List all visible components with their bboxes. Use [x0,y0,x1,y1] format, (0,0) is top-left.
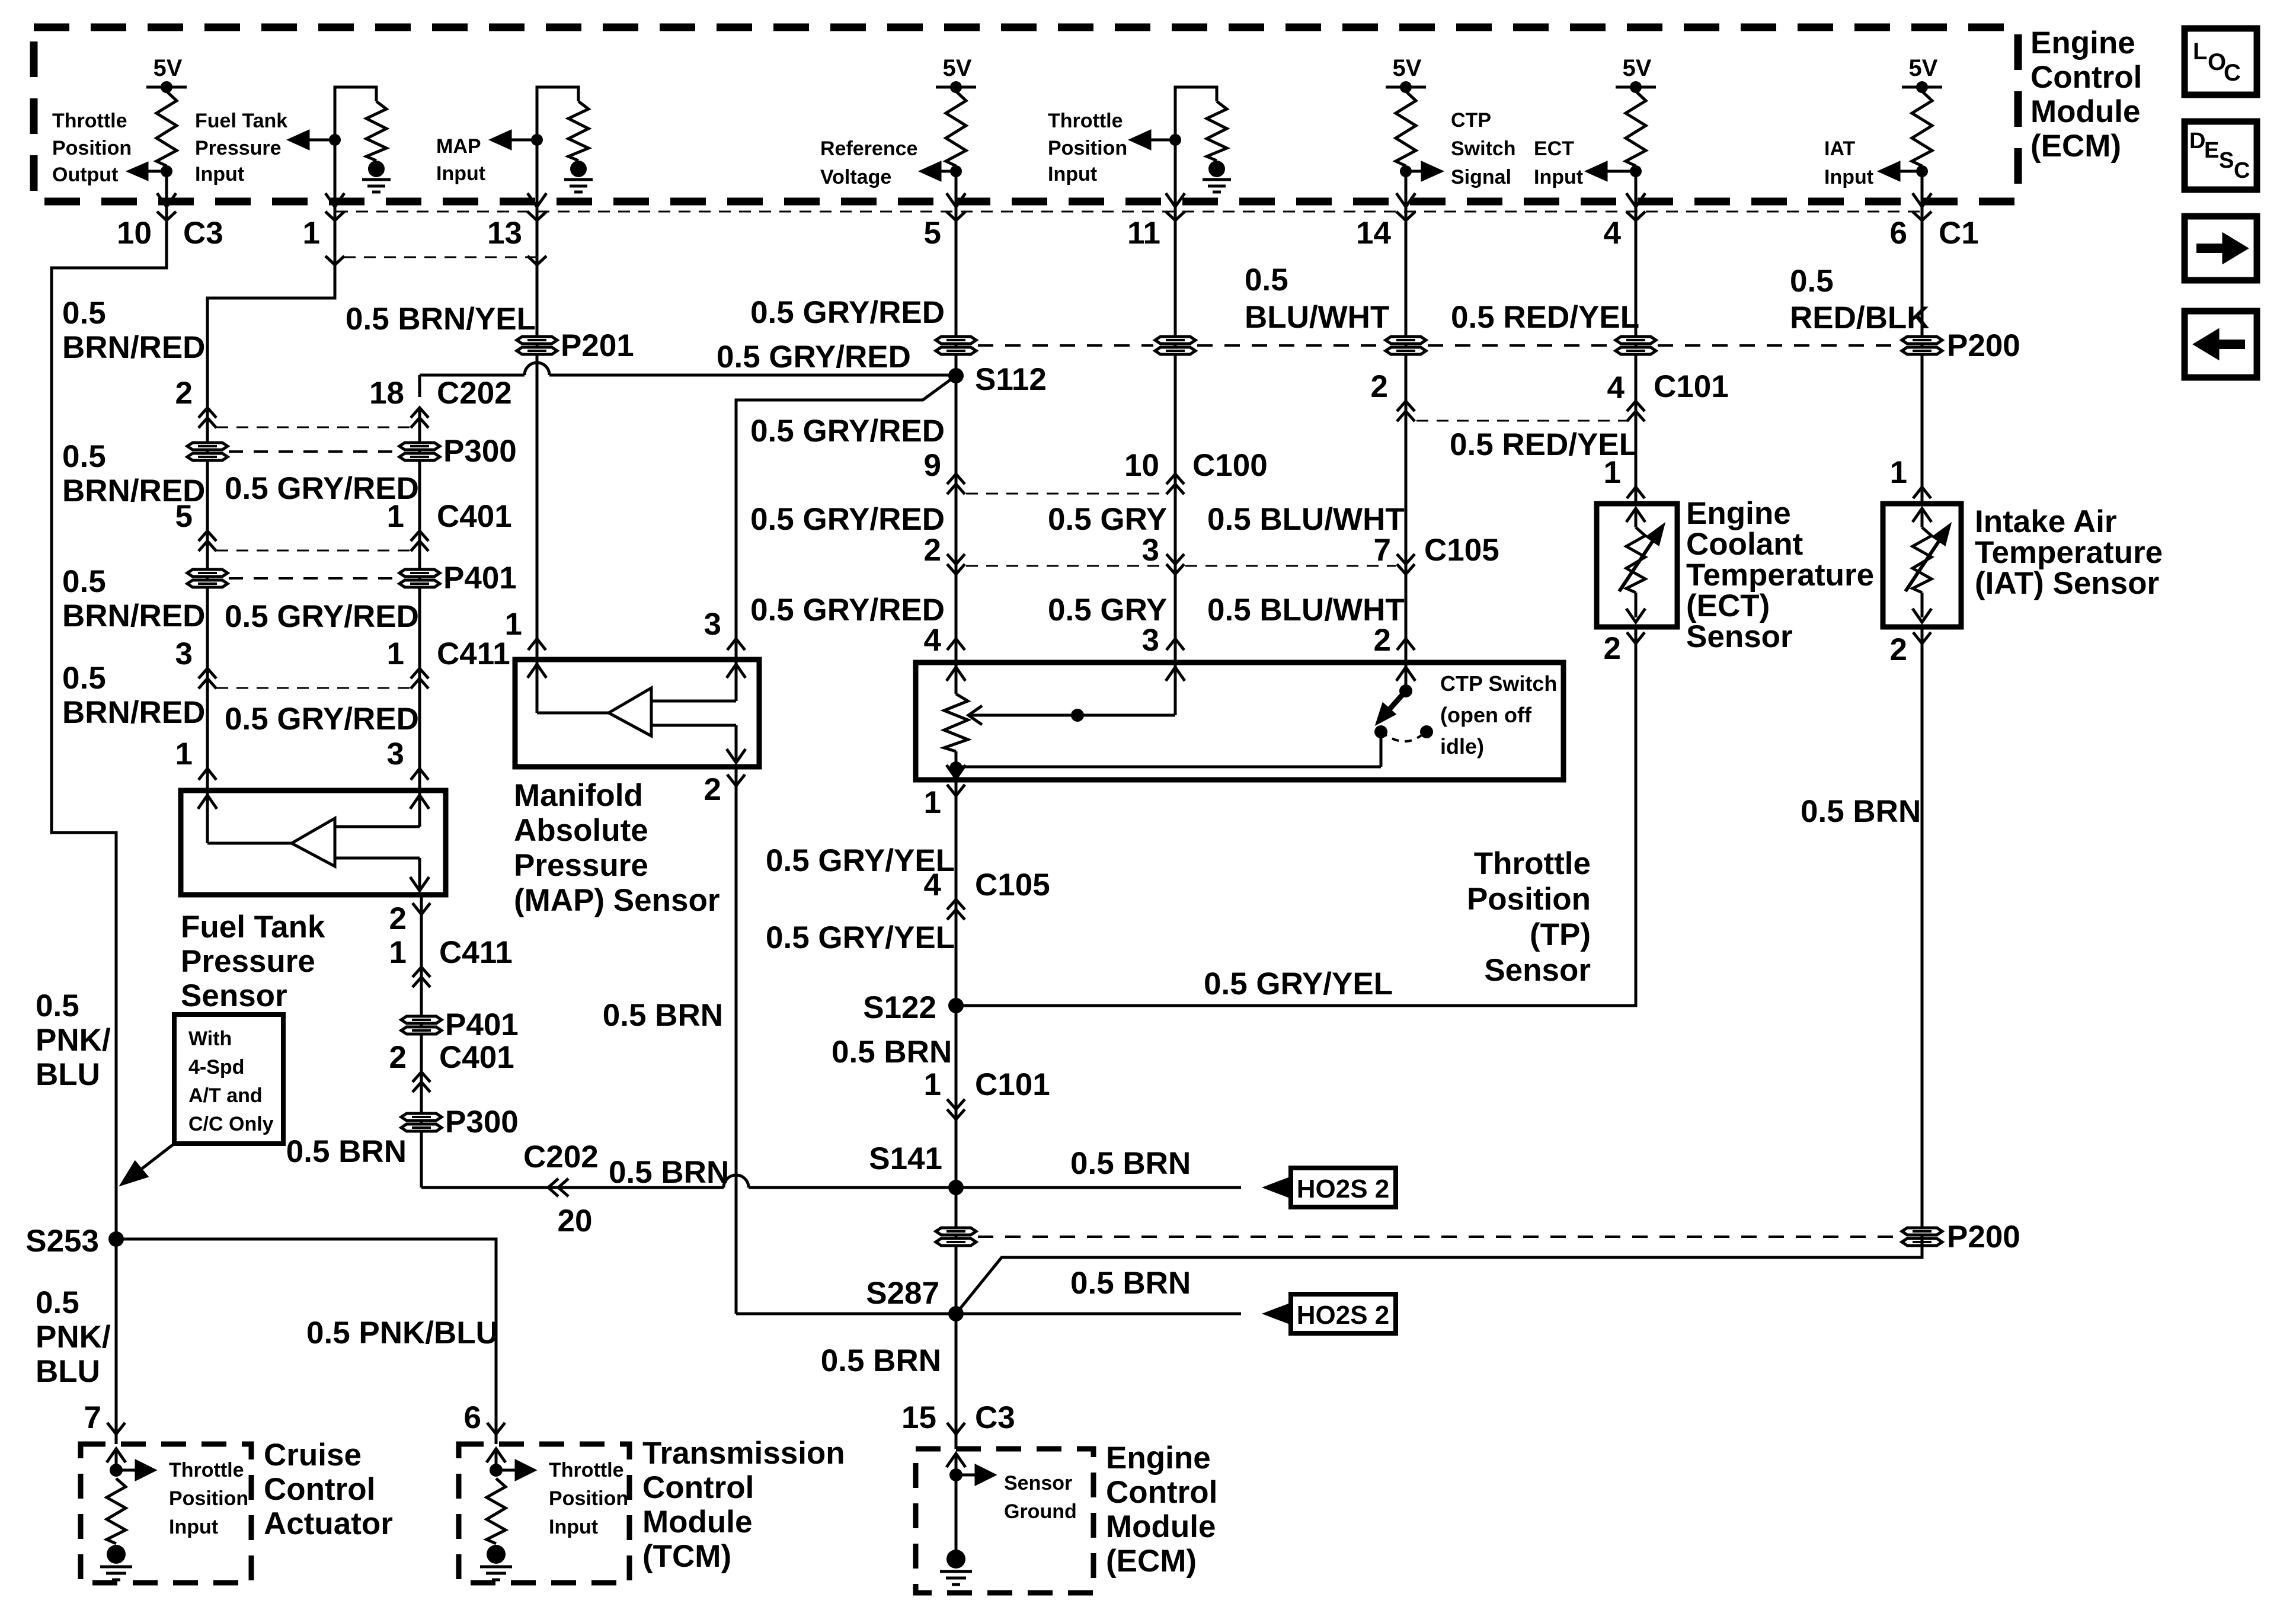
splice S141 [948,1180,964,1195]
wire ECT input to pin 4 [1635,171,1638,206]
ECT sensor pin 2 connector [1627,632,1645,644]
ECM module box (dashed) [34,27,2018,201]
svg-text:2: 2 [175,376,193,411]
svg-text:0.5 GRY/RED: 0.5 GRY/RED [717,340,911,375]
svg-text:C1: C1 [1939,216,1979,251]
svg-text:5: 5 [175,499,193,534]
wire pin5 reference voltage run [955,206,958,662]
svg-text:Engine: Engine [1686,496,1791,531]
svg-text:4: 4 [924,868,942,902]
svg-text:1: 1 [1890,455,1907,490]
svg-text:2: 2 [1374,623,1391,658]
svg-text:11: 11 [1127,216,1160,251]
svg-text:Transmission: Transmission [642,1436,845,1471]
splice S253 [108,1231,124,1247]
svg-text:0.5 BRN: 0.5 BRN [603,998,723,1033]
svg-text:(ECM): (ECM) [1106,1544,1197,1579]
svg-text:C: C [2224,60,2241,86]
resistor R4 (Reference Voltage) [946,91,966,166]
svg-text:Sensor: Sensor [1484,953,1591,988]
svg-text:P300: P300 [443,434,517,469]
wire CTP switch arrow [1406,170,1422,173]
MAP sensor pin 2 connector [727,774,745,786]
svg-text:Pressure: Pressure [195,137,282,159]
svg-text:A/T and: A/T and [188,1084,263,1107]
svg-text:Position: Position [1048,137,1127,159]
node R5 (Throttle Position Input) junction [1169,134,1181,146]
svg-text:Engine: Engine [2030,25,2135,60]
svg-text:Control: Control [1106,1475,1217,1510]
svg-text:0.5 GRY/RED: 0.5 GRY/RED [750,295,945,330]
svg-text:0.5 BLU/WHT: 0.5 BLU/WHT [1207,502,1405,537]
MAP internal wiring [727,664,746,678]
svg-text:10: 10 [117,216,152,251]
svg-text:2: 2 [924,533,941,568]
svg-text:2: 2 [389,901,407,936]
LOC legend box [2185,28,2257,95]
TP sensor potentiometer [946,667,965,681]
wire ECT pin2 to S122 (0.5 GRY/YEL) [956,627,1636,1006]
svg-text:PNK/: PNK/ [36,1320,111,1355]
svg-text:P300: P300 [445,1105,519,1140]
wire P200 to S287 [956,1237,1922,1314]
connector pass-through below S141 [936,1228,976,1246]
Transmission Control Module internals [487,1449,506,1462]
Cruise Control Actuator box (dashed) [81,1444,251,1583]
svg-text:0.5: 0.5 [36,988,79,1023]
svg-text:Position: Position [1467,882,1591,917]
svg-text:4-Spd: 4-Spd [188,1056,244,1078]
Throttle Position Sensor box [916,662,1563,780]
svg-text:(MAP) Sensor: (MAP) Sensor [514,883,720,918]
svg-text:0.5: 0.5 [1245,263,1288,297]
svg-text:Throttle: Throttle [52,110,127,132]
node R4 (Reference Voltage) junction [950,165,962,177]
svg-text:Voltage: Voltage [820,166,891,188]
svg-text:1: 1 [1604,455,1621,490]
left-arrow legend box [2185,311,2257,377]
wire TP input arrow [1150,139,1175,142]
svg-text:1: 1 [389,935,407,970]
TP sensor wiper [968,706,982,725]
svg-text:Input: Input [169,1516,218,1538]
arrow to HO2S 2 (upper) [1266,1178,1291,1197]
svg-text:Temperature: Temperature [1686,558,1874,593]
connector pin 13 [527,212,546,220]
connector pass-through (ECT) [1616,337,1656,354]
splice S112 [948,368,964,383]
svg-text:S122: S122 [863,990,936,1025]
svg-text:3: 3 [175,636,193,671]
wire pin11 TP input run [1174,206,1177,662]
svg-text:S112: S112 [975,362,1047,397]
wire IAT input arrow [1899,170,1922,173]
svg-text:(ECT): (ECT) [1686,588,1770,623]
wire reference voltage to pin 5 [955,171,958,206]
svg-text:Position: Position [549,1487,628,1510]
svg-text:0.5: 0.5 [36,1285,79,1320]
connector P300 row [187,443,228,460]
svg-text:0.5 BRN: 0.5 BRN [1070,1146,1191,1181]
ground Cruise Control Actuator [107,1545,126,1564]
svg-text:C401: C401 [437,499,512,534]
svg-text:C202: C202 [523,1140,599,1174]
wire C202-18 to S112 (0.5 GRY/RED) [418,375,421,397]
wire MAP pin2 down (0.5 BRN) [735,767,738,1314]
svg-text:0.5 GRY/RED: 0.5 GRY/RED [750,502,945,537]
svg-text:0.5 GRY/YEL: 0.5 GRY/YEL [766,920,955,955]
svg-text:Control: Control [264,1472,375,1507]
wire MAP input arrow [510,139,537,142]
svg-text:BLU: BLU [36,1057,100,1092]
wire P300 bottom to S141 (0.5 BRN) [421,1186,544,1189]
svg-text:P201: P201 [561,328,634,363]
resistor R7 (ECT Input) [1626,91,1646,166]
svg-text:Position: Position [52,137,132,159]
HO2S 2 box (upper) [1291,1168,1396,1207]
resistor R8 (IAT Input) [1912,91,1932,166]
svg-text:C3: C3 [183,216,223,251]
wire S287 to HO2S 2 (lower) [956,1313,1241,1315]
svg-text:Throttle: Throttle [1474,846,1591,881]
svg-text:RED/BLK: RED/BLK [1790,300,1930,335]
ground Engine Control Module (bottom) [946,1550,965,1569]
svg-text:D: D [2189,129,2205,153]
svg-text:2: 2 [1371,369,1388,404]
node R8 (IAT Input) junction [1916,165,1928,177]
svg-text:0.5 BRN: 0.5 BRN [609,1155,729,1190]
FTP internal wiring [410,795,429,809]
connector pass-through (CTP) [1386,337,1426,354]
ECT thermistor [1626,508,1645,522]
svg-text:0.5 BRN: 0.5 BRN [821,1343,941,1378]
wire right chain C202-18 down to FTP pin3 [418,408,421,790]
svg-text:C411: C411 [437,636,510,671]
svg-text:10: 10 [1124,448,1159,483]
svg-text:0.5 GRY/RED: 0.5 GRY/RED [225,702,419,737]
svg-text:0.5 RED/YEL: 0.5 RED/YEL [1451,300,1639,335]
wire FTP input to pin 1 [334,140,337,206]
connector pin 1 lower chevron [325,256,344,265]
svg-text:0.5 BRN: 0.5 BRN [1070,1266,1191,1301]
wire pin1 FTP run to left chain [207,206,335,790]
svg-text:C/C Only: C/C Only [188,1113,274,1135]
svg-text:C: C [2234,158,2250,183]
svg-text:5V: 5V [154,55,183,81]
svg-text:3: 3 [387,737,404,772]
svg-text:5: 5 [924,216,941,251]
svg-text:S141: S141 [869,1141,942,1176]
svg-text:C411: C411 [439,935,513,970]
node R1 (Throttle Position Output) junction [161,165,172,177]
resistor R3 (MAP Input) pull-down [568,101,589,161]
svg-text:Pressure: Pressure [181,944,315,979]
right-arrow legend box [2185,216,2257,280]
svg-text:1: 1 [175,737,193,772]
splice S122 [948,998,964,1013]
svg-text:5V: 5V [1909,55,1938,81]
svg-text:C101: C101 [1654,369,1729,404]
svg-text:E: E [2204,138,2219,163]
svg-text:P200: P200 [1947,328,2020,363]
MAP sensor internals [527,664,546,678]
svg-text:18: 18 [369,376,404,411]
svg-text:S253: S253 [25,1224,99,1259]
arrow to HO2S 2 (lower) [1266,1304,1291,1323]
connector P201 [517,337,557,354]
svg-text:Actuator: Actuator [264,1506,393,1541]
svg-text:CTP Switch: CTP Switch [1440,671,1557,696]
CTP switch [1396,667,1415,681]
svg-text:(ECM): (ECM) [2030,129,2121,164]
svg-text:0.5: 0.5 [62,439,106,474]
svg-text:1: 1 [387,636,404,671]
svg-text:4: 4 [1604,216,1622,251]
MAP amplifier triangle [609,688,651,736]
ground Transmission Control Module [487,1545,506,1564]
svg-text:4: 4 [1607,370,1625,405]
TP sensor pin 1 connector [947,785,965,796]
wire S112 to MAP pin 3 [736,376,956,660]
wire hop over MAP column [525,363,549,375]
svg-text:5V: 5V [1393,55,1422,81]
svg-text:1: 1 [303,216,320,251]
svg-text:S: S [2219,148,2234,173]
svg-text:Module: Module [1106,1509,1216,1544]
svg-text:BLU/WHT: BLU/WHT [1245,300,1389,335]
connector P200 (bottom) [1902,1228,1942,1246]
HO2S 2 box (lower) [1291,1294,1396,1333]
svg-text:0.5 PNK/BLU: 0.5 PNK/BLU [306,1315,498,1350]
svg-text:20: 20 [558,1204,593,1238]
connector pass-through (reference) [936,337,976,354]
svg-text:1: 1 [387,499,404,534]
svg-text:C100: C100 [1192,448,1268,483]
node R6 (CTP Switch Signal) junction [1400,165,1412,177]
resistor R2 (Fuel Tank Pressure Input) pull-down [366,101,386,161]
svg-text:1: 1 [505,607,522,642]
FTP sensor pin 2 connector [412,903,430,914]
wire pin14 CTP run [1405,206,1408,662]
wire MAP pin2 column to S287 [736,1313,956,1315]
svg-text:0.5: 0.5 [1790,264,1834,299]
svg-text:Absolute: Absolute [514,813,648,848]
second harness row dashed line (pins 1-13) [344,257,537,258]
svg-text:0.5 GRY/RED: 0.5 GRY/RED [750,414,945,449]
wire pin6 IAT run [1921,206,1924,504]
resistor R5 (Throttle Position Input) pull-down [1207,101,1227,161]
svg-text:BRN/RED: BRN/RED [62,330,205,365]
connector pin 5 [946,212,965,220]
svg-text:Cruise: Cruise [264,1438,362,1473]
svg-text:Output: Output [52,164,118,186]
svg-text:(open off: (open off [1440,703,1532,727]
svg-text:Input: Input [1824,166,1873,188]
svg-text:13: 13 [487,216,522,251]
note box With 4-Spd A/T and C/C Only [174,1014,283,1144]
svg-text:With: With [188,1028,232,1050]
svg-text:Temperature: Temperature [1975,535,2163,570]
Engine Control Module (bottom) box (dashed) [916,1449,1093,1593]
wire R2 (Fuel Tank Pressure Input) internal loop [335,87,376,140]
svg-text:3: 3 [1142,533,1159,568]
svg-text:6: 6 [464,1400,481,1435]
svg-text:Ground: Ground [1004,1500,1077,1523]
resistor R6 (CTP Switch Signal) [1396,91,1416,166]
connector P401 row [187,569,228,587]
DESC legend box [2185,121,2257,190]
svg-text:Input: Input [1534,166,1583,188]
svg-text:BLU: BLU [36,1354,100,1389]
IAT sensor pin 2 connector [1913,632,1931,644]
svg-text:Fuel Tank: Fuel Tank [195,110,287,132]
svg-text:15: 15 [901,1400,936,1435]
svg-text:1: 1 [924,785,941,820]
wire R3 (MAP Input) internal loop [537,87,578,140]
ground R5 (Throttle Position Input) [1208,161,1225,177]
svg-text:0.5 BRN: 0.5 BRN [832,1035,952,1070]
ground R3 (MAP Input) [570,161,587,177]
Intake Air Temperature Sensor box [1883,504,1961,627]
P row dashed segments [978,344,1153,347]
svg-text:3: 3 [1142,623,1159,658]
node R7 (ECT Input) junction [1630,165,1642,177]
svg-text:Signal: Signal [1451,166,1511,188]
svg-text:HO2S 2: HO2S 2 [1297,1301,1390,1330]
svg-text:3: 3 [704,607,721,642]
svg-text:P401: P401 [445,1007,519,1042]
svg-text:14: 14 [1356,216,1391,251]
svg-text:0.5 GRY: 0.5 GRY [1048,502,1167,537]
svg-text:Manifold: Manifold [514,778,643,813]
svg-text:C105: C105 [1424,533,1499,568]
svg-text:5V: 5V [1623,55,1652,81]
svg-text:HO2S 2: HO2S 2 [1297,1174,1390,1204]
FTP sensor internals [198,795,217,809]
svg-text:0.5 GRY/RED: 0.5 GRY/RED [225,599,419,634]
note arrow to wire [137,1144,174,1172]
svg-text:BRN/RED: BRN/RED [62,695,205,730]
svg-text:7: 7 [1374,533,1391,568]
svg-text:Reference: Reference [820,137,917,160]
svg-text:Control: Control [2030,60,2142,95]
svg-text:P200: P200 [1947,1219,2020,1254]
svg-text:0.5 GRY/YEL: 0.5 GRY/YEL [1204,966,1393,1001]
Transmission Control Module box (dashed) [459,1444,629,1583]
svg-text:P401: P401 [443,561,517,596]
Fuel Tank Pressure Sensor box [181,790,446,895]
svg-text:(IAT) Sensor: (IAT) Sensor [1975,566,2159,601]
splice S287 [948,1306,964,1321]
wire S253 to TCM pin 6 (0.5 PNK/BLU) [116,1239,496,1444]
svg-text:BRN/RED: BRN/RED [62,598,205,633]
wire TP output to pin 10 [165,171,168,206]
svg-text:Input: Input [195,163,244,185]
svg-text:4: 4 [924,623,942,658]
svg-text:9: 9 [924,448,941,483]
svg-text:Input: Input [1048,163,1097,185]
svg-text:7: 7 [84,1400,101,1435]
svg-text:Input: Input [549,1516,598,1538]
svg-text:0.5 BRN/YEL: 0.5 BRN/YEL [346,302,536,337]
wire IAT pin2 down (0.5 BRN) [1921,627,1924,1257]
svg-text:2: 2 [1604,631,1621,666]
svg-text:2: 2 [389,1040,407,1075]
Cruise Control Actuator internals [107,1449,126,1462]
svg-text:C3: C3 [975,1400,1015,1435]
svg-text:Pressure: Pressure [514,848,648,883]
Engine Coolant Temperature Sensor box [1597,504,1677,627]
connector pin 14 [1396,212,1415,220]
connector pin 6 C1 [1913,212,1932,220]
svg-text:Sensor: Sensor [1004,1472,1072,1494]
connector pin 13 lower chevron [527,256,546,265]
svg-text:0.5: 0.5 [62,296,106,331]
svg-text:Module: Module [642,1505,752,1539]
svg-text:idle): idle) [1440,734,1484,758]
svg-text:MAP: MAP [436,135,481,158]
IAT thermistor [1913,508,1932,522]
svg-text:1: 1 [924,1067,941,1102]
Manifold Absolute Pressure Sensor box [515,660,759,767]
svg-text:Input: Input [436,162,485,185]
svg-text:Coolant: Coolant [1686,527,1803,562]
svg-text:CTP: CTP [1451,109,1491,132]
svg-text:2: 2 [704,772,721,807]
wire R5 (Throttle Position Input) internal loop [1175,87,1217,140]
connector C202 pin 20 [548,1179,558,1196]
svg-text:Throttle: Throttle [549,1459,624,1481]
connector row dashed line [336,211,1922,213]
connector pin 10 C3 [157,212,176,220]
svg-text:Intake Air: Intake Air [1975,504,2117,539]
svg-text:0.5 BRN: 0.5 BRN [286,1134,407,1169]
connector pin 1 [325,212,344,220]
svg-text:Switch: Switch [1451,137,1516,160]
resistor R1 (Throttle Position Output) [156,91,177,166]
svg-text:Module: Module [2030,94,2140,129]
svg-text:6: 6 [1890,216,1907,251]
wire IAT input to pin 6 [1921,171,1924,206]
svg-text:5V: 5V [943,55,972,81]
wire pin13 MAP input run [536,206,539,660]
svg-text:(TCM): (TCM) [642,1539,731,1574]
svg-text:Control: Control [642,1470,754,1505]
svg-text:0.5: 0.5 [62,661,106,696]
wire hop over MAP pin2 column [724,1175,749,1188]
FTP amplifier triangle [292,818,335,866]
wire TP input to pin 11 [1174,140,1177,206]
svg-text:Throttle: Throttle [1048,110,1123,132]
connector P401 (below FTP) [401,1016,442,1034]
wire TP output arrow [146,170,167,173]
svg-text:L: L [2193,39,2207,65]
wire ECT input arrow [1606,170,1636,173]
svg-text:Throttle: Throttle [169,1459,244,1481]
node R3 (MAP Input) junction [531,134,543,146]
svg-text:0.5 GRY/RED: 0.5 GRY/RED [750,593,945,628]
connector P200 (top) [1902,337,1942,354]
svg-text:PNK/: PNK/ [36,1023,111,1058]
connector pass-through (TP input) [1155,337,1195,354]
svg-text:Position: Position [169,1487,248,1510]
wire CTP signal to pin 14 [1405,171,1408,206]
svg-text:(TP): (TP) [1530,917,1591,952]
wire TP pin1 down [955,780,958,1449]
ground R2 (Fuel Tank Pressure Input) [368,161,385,177]
svg-text:S287: S287 [866,1276,939,1311]
wire reference voltage arrow [940,170,956,173]
